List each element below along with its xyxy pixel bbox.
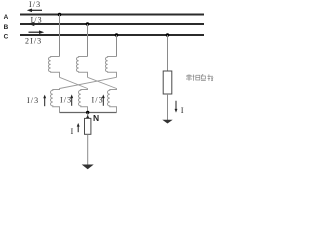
node on line A: [58, 13, 62, 17]
current arrow right above line C: [29, 30, 45, 34]
node on line C at transformer: [115, 33, 119, 37]
load resistor (single-phase load): [163, 71, 172, 94]
svg-text:I: I: [71, 126, 74, 136]
glyph fu: [201, 74, 206, 80]
current arrow up secondary 3: [102, 94, 105, 105]
transformer primary winding 2: [76, 57, 87, 78]
current arrow up at neutral branch: [77, 123, 80, 132]
wire: phase line B: [20, 23, 204, 25]
wire: zigzag link primary3 to secondary1: [60, 77, 117, 88]
wire: drop from B to primary 2: [87, 24, 89, 57]
node N on neutral bus: [86, 111, 89, 114]
current arrow down at load branch: [175, 101, 178, 113]
glyph xiang: [193, 75, 200, 81]
wire: neutral bus: [60, 112, 117, 114]
current arrow up secondary 1: [43, 95, 46, 107]
node on line B: [86, 22, 90, 26]
svg-text:I/3: I/3: [92, 96, 104, 105]
wire: phase line C: [20, 34, 204, 36]
node on line C at load: [166, 33, 170, 37]
wire: drop from A to primary 1: [59, 15, 61, 57]
current arrow up secondary 2: [70, 94, 73, 105]
arrowhead down at neutral branch end: [82, 165, 94, 170]
transformer secondary winding 2: [79, 88, 88, 112]
neutral load resistor: [85, 118, 91, 134]
transformer secondary winding 1: [50, 88, 59, 112]
label single-phase load (CJK pseudoglyphs): [186, 74, 213, 81]
svg-text:B: B: [4, 24, 9, 31]
wire: load resistor down: [167, 94, 169, 120]
wire: neutral resistor down: [87, 134, 89, 164]
svg-text:I/3: I/3: [60, 96, 72, 105]
current arrowhead up above neutral resistor: [86, 115, 90, 119]
glyph zai: [207, 74, 213, 81]
transformer primary winding 1: [48, 57, 59, 78]
svg-text:C: C: [4, 34, 9, 41]
current arrow left above line A: [27, 9, 42, 13]
svg-text:A: A: [4, 14, 9, 21]
transformer primary winding 3: [105, 57, 116, 78]
arrowhead down at load branch end: [162, 120, 172, 124]
transformer secondary winding 3: [108, 88, 117, 112]
wire: zigzag link primary2 to secondary3: [88, 77, 117, 88]
wire: zigzag link primary1 to secondary2: [60, 77, 88, 88]
wire: drop from C to load: [167, 35, 169, 71]
wire: N dot to neutral resistor: [87, 113, 89, 117]
svg-text:2I/3: 2I/3: [25, 37, 42, 46]
svg-text:I: I: [181, 105, 184, 115]
svg-text:N: N: [93, 113, 99, 123]
wire: phase line A: [20, 14, 204, 16]
glyph dan: [186, 74, 192, 80]
wire: drop from C to primary 3: [116, 35, 118, 57]
current arrowhead left on line B: [29, 22, 35, 26]
svg-text:I/3: I/3: [27, 96, 39, 105]
svg-text:I/3: I/3: [29, 0, 41, 9]
